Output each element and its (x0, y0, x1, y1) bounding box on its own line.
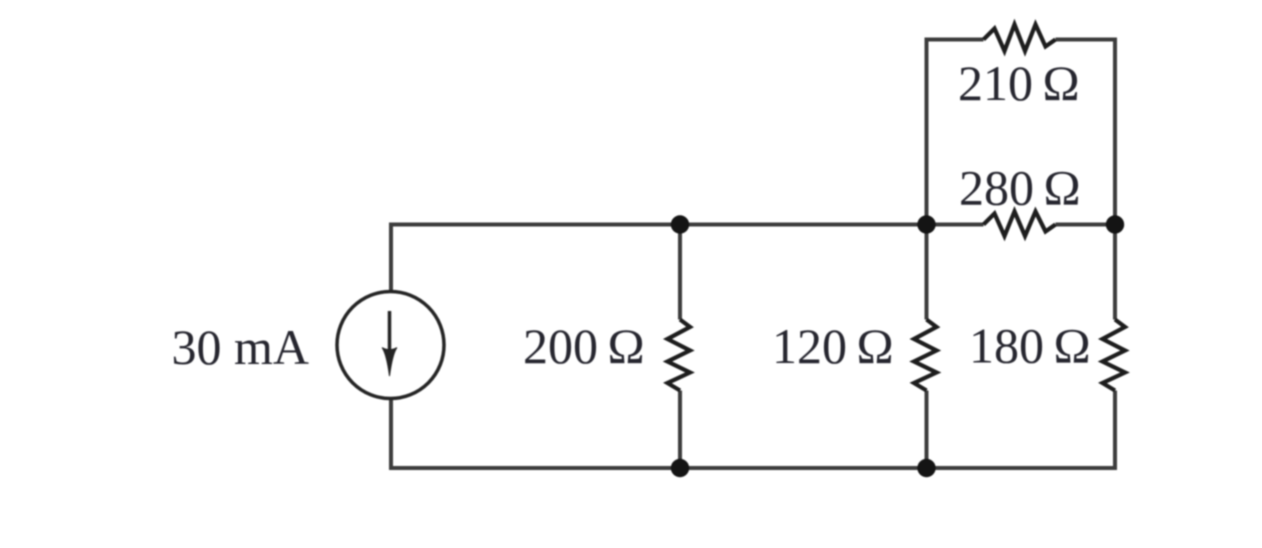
wire loop top-right and right column (1056, 40, 1116, 320)
wire 200-ohm bottom stub (678, 391, 682, 469)
resistor 280 ohm zigzag (984, 212, 1056, 237)
node dot bottom-middle junction (917, 459, 935, 477)
node dot top-middle junction (917, 215, 935, 233)
resistor 200 ohm zigzag (668, 320, 691, 391)
wire 200-ohm top stub (678, 225, 682, 320)
resistor 180 ohm zigzag (1103, 320, 1126, 391)
node dot top-right junction (1106, 215, 1124, 233)
resistor 210 ohm zigzag (984, 25, 1056, 52)
resistor 120 ohm zigzag (914, 320, 937, 391)
current source arrow stem (388, 311, 392, 353)
wire 120-ohm bottom stub (925, 391, 929, 469)
svg-text:280 Ω: 280 Ω (959, 160, 1081, 216)
wire top rail right of 280 resistor (1056, 223, 1116, 227)
wire left-vertical-top and top rail to 280 zigzag (391, 225, 984, 291)
current source 30 mA circle (337, 292, 444, 399)
current source arrow head (382, 348, 397, 376)
node dot bottom-left junction (671, 459, 689, 477)
node dot top-left junction (671, 215, 689, 233)
wire left-vertical-bottom, bottom rail, right-bottom stub (391, 391, 1115, 469)
svg-text:120 Ω: 120 Ω (772, 318, 894, 374)
svg-text:210 Ω: 210 Ω (958, 55, 1080, 111)
svg-text:30 mA: 30 mA (172, 319, 310, 375)
svg-text:180 Ω: 180 Ω (969, 318, 1091, 374)
wire mid column up and loop top-left (927, 40, 984, 320)
svg-text:200 Ω: 200 Ω (523, 318, 645, 374)
